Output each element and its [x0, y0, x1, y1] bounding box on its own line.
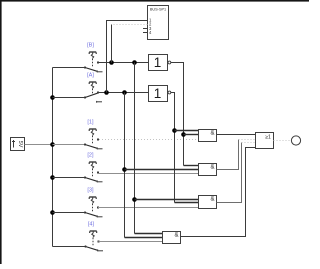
OR gate U7: [256, 133, 274, 149]
node bus-sw2: [50, 175, 55, 180]
switch 4: [84, 231, 103, 251]
switch 2: [84, 162, 103, 182]
wire U3 out to OR in1: [217, 134, 256, 136]
battery V1 5V: [11, 138, 25, 151]
node Bbar-AND1: [181, 132, 186, 137]
probe lamp X1: [291, 136, 300, 145]
node A-riser: [122, 90, 127, 95]
wire switch B out to NOT gate U1: [98, 62, 149, 64]
svg-text:[1]: [1]: [87, 120, 94, 126]
wire B riser down: [134, 63, 136, 234]
svg-text:&: &: [174, 232, 178, 238]
node B-AND3: [132, 197, 137, 202]
AND gate U5: [199, 196, 217, 209]
AND gate U6: [163, 232, 181, 244]
wire bus to switch 3: [53, 212, 86, 214]
node Abar-AND1: [172, 128, 177, 133]
wire Abar tap to AND U3 in1: [175, 130, 199, 132]
AND gate U3: [199, 130, 217, 142]
wire Bbar tap to AND U3 in2: [184, 134, 199, 136]
wire U6 out riser to OR in4: [181, 148, 256, 237]
wire bus to switch 1: [53, 144, 86, 146]
wire A riser into AND U6 in1: [125, 237, 163, 239]
NOT gate U2 (A invert): [149, 86, 171, 102]
switch A: [84, 82, 102, 103]
AND gate U4: [199, 164, 217, 176]
svg-text:[A]: [A]: [87, 73, 94, 79]
switch 1: [84, 129, 103, 149]
node A-AND2: [122, 167, 127, 172]
node B-pin2: [109, 60, 114, 65]
svg-text:[3]: [3]: [87, 188, 94, 194]
svg-text:≥1: ≥1: [265, 135, 271, 141]
wire A tap to AND U4 in2: [125, 169, 199, 171]
wire bus pin2 dashed to riser: [112, 24, 148, 26]
wire switch 4 out to AND U6: [99, 241, 163, 243]
wire U2 out to Abar riser: [171, 93, 175, 203]
bus interface box BUS-SP1: [148, 6, 169, 40]
svg-text:1: 1: [154, 86, 162, 101]
wire U5 dotted into OR in3: [242, 142, 256, 144]
switch 3: [84, 197, 103, 217]
wire bus to switch 2: [53, 177, 86, 179]
svg-text:1: 1: [154, 55, 162, 70]
wire U5 out riser to OR in3: [217, 143, 242, 203]
wire pin2 riser to B row: [111, 25, 113, 63]
svg-text:[4]: [4]: [88, 222, 95, 228]
svg-text:&: &: [210, 130, 214, 136]
wire battery to bus: [25, 144, 53, 146]
wire OR out dotted to probe: [274, 140, 292, 142]
svg-text:&: &: [210, 196, 214, 202]
switch B: [84, 52, 103, 72]
node bus-sw1: [50, 142, 55, 147]
node B-riser: [132, 60, 137, 65]
wire bus corner to switch 4: [53, 246, 86, 248]
svg-text:&: &: [210, 164, 214, 170]
svg-text:BUS-SP1: BUS-SP1: [150, 8, 166, 12]
wire B riser into AND U6 in2: [135, 233, 163, 235]
wire bus pin1 to A row: [107, 21, 148, 93]
wire switch 1 out to AND U3 (dotted low): [99, 139, 199, 141]
node bus-sw3: [50, 210, 55, 215]
svg-text:[B]: [B]: [87, 43, 94, 49]
svg-text:5V: 5V: [17, 141, 23, 148]
wire U4 out riser to OR in2: [217, 140, 239, 170]
wire switch 3 out to AND U5: [98, 207, 199, 209]
wire B tap to AND U5 in1: [135, 199, 199, 201]
wire A riser down: [124, 93, 126, 238]
node A-pin1: [104, 90, 109, 95]
wire bus to switch B: [53, 67, 86, 69]
wire Bbar riser into AND U4 in1: [184, 165, 199, 167]
wire Abar riser into AND U5 in2: [175, 202, 199, 204]
node bus-A: [50, 95, 55, 100]
wire switch 2 out to AND U4: [98, 173, 199, 175]
wire U4 dotted into OR in2: [239, 139, 256, 141]
wire left bus vertical: [52, 68, 54, 247]
NOT gate U1 (B invert): [149, 55, 171, 71]
wire bus pin4 stub: [143, 32, 148, 34]
svg-text:[2]: [2]: [87, 153, 94, 159]
wire U1 out to Bbar riser: [171, 63, 184, 166]
wire switch A out to NOT gate U2: [98, 92, 149, 94]
wire bus to switch A: [53, 97, 86, 99]
wire bus pin3 stub: [143, 28, 148, 30]
